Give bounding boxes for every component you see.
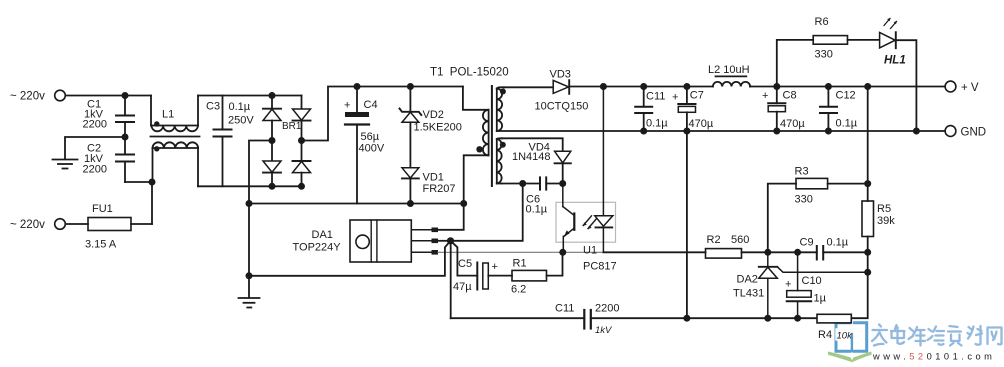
LED U1 xyxy=(602,87,604,216)
svg-text:C11: C11 xyxy=(555,303,574,315)
inductor L2 10uH xyxy=(708,64,750,87)
svg-text:R2: R2 xyxy=(707,234,721,246)
svg-text:~ 220v: ~ 220v xyxy=(10,219,45,231)
svg-text:R5: R5 xyxy=(877,203,891,215)
svg-text:R3: R3 xyxy=(795,165,809,177)
node AC line input terminal xyxy=(10,90,65,102)
diode VD3 10CTQ150 xyxy=(504,68,588,112)
svg-text:1µ: 1µ xyxy=(814,292,827,304)
wire DC+ from bridge to primary rail xyxy=(302,87,463,141)
resistor R3 330 xyxy=(768,165,868,252)
svg-text:330: 330 xyxy=(795,193,813,205)
transformer T1 bias winding xyxy=(496,139,498,184)
pin 1 drain xyxy=(411,229,431,231)
svg-text:FU1: FU1 xyxy=(92,203,113,215)
svg-text:47µ: 47µ xyxy=(453,281,472,293)
node TL431 cathode junction xyxy=(764,249,771,256)
capacitor C3 0.1u 250V xyxy=(206,96,254,187)
wire xyxy=(65,137,125,159)
svg-text:2200: 2200 xyxy=(595,303,619,315)
node junction C1/C2 xyxy=(122,134,129,141)
svg-text:C12: C12 xyxy=(836,90,856,102)
wire C6 node down to control xyxy=(451,184,523,241)
diode BR1 bottom-left xyxy=(271,141,273,162)
wire drain pin to primary xyxy=(438,204,464,230)
svg-text:560: 560 xyxy=(731,234,749,246)
svg-text:56µ: 56µ xyxy=(361,131,380,143)
resistor R2 560 xyxy=(706,234,768,258)
svg-text:0.1µ: 0.1µ xyxy=(526,204,548,216)
wire primary bottom xyxy=(464,155,489,203)
node primary ground junction xyxy=(246,272,253,279)
watermark chinese text xyxy=(872,325,1002,346)
node bridge top junction xyxy=(269,92,276,99)
node VD1 bottom junction xyxy=(407,200,414,207)
wire AC top rail to bridge xyxy=(198,95,302,97)
wire xyxy=(768,251,798,253)
svg-text:C11: C11 xyxy=(646,91,665,103)
capacitor C11 2200 1kV (Y-cap) xyxy=(555,303,619,336)
wire xyxy=(66,95,152,97)
svg-text:VD1: VD1 xyxy=(423,172,444,184)
node VD2 top xyxy=(407,83,414,90)
capacitor C6 0.1u xyxy=(526,177,563,215)
IC DA1 TOP224Y xyxy=(293,220,439,262)
svg-text:+: + xyxy=(492,261,498,273)
svg-text:T1 POL-15020: T1 POL-15020 xyxy=(430,67,509,79)
node bus junctions xyxy=(683,315,690,322)
svg-text:3.15 A: 3.15 A xyxy=(85,239,117,251)
svg-text:0.1µ: 0.1µ xyxy=(836,117,858,129)
wire primary top xyxy=(463,87,489,110)
capacitor C11 0.1u (output) xyxy=(635,87,668,132)
svg-text:R6: R6 xyxy=(815,16,829,28)
shunt regulator DA2 TL431 xyxy=(733,252,868,318)
svg-text:C3: C3 xyxy=(206,101,220,113)
pin 2 control xyxy=(411,240,431,242)
svg-text:L1: L1 xyxy=(162,109,174,121)
wire bias bottom to C6 xyxy=(502,183,540,185)
wire control to primary ground xyxy=(249,241,451,276)
ground primary xyxy=(239,276,260,308)
svg-text:250V: 250V xyxy=(228,115,254,127)
transformer T1 primary winding xyxy=(488,110,490,156)
svg-text:FR207: FR207 xyxy=(423,183,456,195)
ground xyxy=(53,160,78,169)
node primary winding bottom junction xyxy=(460,200,467,207)
resistor R5 39k xyxy=(862,201,895,237)
svg-text:0.1µ: 0.1µ xyxy=(827,236,849,248)
node GND rail junctions xyxy=(640,128,647,135)
wire Y-cap bus xyxy=(451,317,585,319)
svg-text:+: + xyxy=(672,91,678,103)
node source/emitter junction xyxy=(559,249,566,256)
wire xyxy=(151,182,153,224)
svg-text:+: + xyxy=(344,100,350,112)
svg-text:2200: 2200 xyxy=(83,118,107,130)
svg-text:1.5KE200: 1.5KE200 xyxy=(414,121,462,133)
svg-text:PC817: PC817 xyxy=(583,260,617,272)
wire control to C5 xyxy=(451,241,478,276)
svg-text:470µ: 470µ xyxy=(780,118,805,130)
svg-text:C4: C4 xyxy=(364,99,378,111)
wire LED cathode to R2 xyxy=(603,251,705,253)
optocoupler light arrows xyxy=(583,216,591,226)
resistor R6 330 xyxy=(777,16,880,87)
wire AC bottom rail to bridge xyxy=(198,185,302,187)
capacitor C7 470u xyxy=(672,87,714,132)
svg-text:39k: 39k xyxy=(877,215,895,227)
svg-text:+ V: + V xyxy=(961,82,979,94)
diode VD2 1.5KE200 xyxy=(400,87,462,168)
wire control down to Y-cap bus xyxy=(450,241,452,318)
diode BR1 top-right xyxy=(301,96,303,110)
svg-text:HL1: HL1 xyxy=(884,54,906,66)
diode BR1 top-left xyxy=(271,96,273,109)
svg-text:C7: C7 xyxy=(690,90,704,102)
diode BR1 bottom-right xyxy=(301,141,303,162)
capacitor C9 0.1u xyxy=(798,236,868,259)
svg-text:VD2: VD2 xyxy=(423,109,444,121)
svg-text:R4: R4 xyxy=(818,329,832,341)
resistor R1 6.2 xyxy=(511,252,563,295)
node C6 right junction xyxy=(559,180,566,187)
svg-text:DA1: DA1 xyxy=(312,229,333,241)
node bridge bottom-left junction xyxy=(269,183,276,190)
svg-text:www.520101.com: www.520101.com xyxy=(872,352,995,362)
svg-text:470µ: 470µ xyxy=(689,118,714,130)
fuse FU1 3.15A xyxy=(66,203,153,251)
svg-text:L2 10uH: L2 10uH xyxy=(708,64,750,76)
watermark logo icon xyxy=(828,323,872,363)
capacitor C4 56u 400V xyxy=(344,87,385,204)
wire DC- from bridge xyxy=(249,141,272,276)
svg-text:DA2: DA2 xyxy=(737,273,758,285)
svg-text:U1: U1 xyxy=(583,245,597,257)
node +V rail junctions xyxy=(600,83,607,90)
svg-text:10k: 10k xyxy=(837,331,854,342)
wire GND rail xyxy=(497,130,945,132)
node C4 top xyxy=(354,83,361,90)
capacitor C2 xyxy=(83,137,135,182)
svg-text:C8: C8 xyxy=(783,90,797,102)
node +V output terminal xyxy=(945,81,979,94)
node control junction xyxy=(447,237,454,244)
svg-text:10CTQ150: 10CTQ150 xyxy=(535,101,589,113)
resistor R4 10k xyxy=(817,314,851,341)
svg-text:1N4148: 1N4148 xyxy=(512,151,551,163)
svg-text:C5: C5 xyxy=(458,258,472,270)
svg-text:400V: 400V xyxy=(359,143,385,155)
svg-text:GND: GND xyxy=(961,127,987,139)
svg-text:330: 330 xyxy=(815,48,833,60)
pin 3 source xyxy=(411,251,431,253)
wire control pin xyxy=(438,240,451,242)
svg-text:1kV: 1kV xyxy=(595,325,613,336)
node junction C2/FU1/L1 xyxy=(149,179,156,186)
diode VD4 1N4148 xyxy=(512,142,571,184)
svg-text:0.1µ: 0.1µ xyxy=(229,101,251,113)
wire xyxy=(125,181,152,183)
node GND output terminal xyxy=(945,126,986,139)
svg-text:BR1: BR1 xyxy=(282,121,302,132)
optocoupler U1 PC817 xyxy=(556,87,617,273)
wire C7 node down to feedback bus xyxy=(686,131,688,318)
svg-text:TL431: TL431 xyxy=(733,287,764,299)
transformer T1 secondary winding xyxy=(496,89,498,131)
node bridge bottom-right junction xyxy=(298,183,305,190)
inductor L1 common-mode choke xyxy=(151,96,200,187)
node divider/C9 junction xyxy=(864,249,871,256)
node TL431 ref junction xyxy=(864,269,871,276)
wire feedback divider vertical xyxy=(867,87,869,202)
svg-text:6.2: 6.2 xyxy=(511,283,526,295)
bridge rectifier BR1 xyxy=(263,92,311,190)
LED HL1 xyxy=(880,18,917,131)
node bridge left mid (DC-) xyxy=(269,137,276,144)
node bridge right mid (DC+) xyxy=(298,137,305,144)
node C9/C10 junction xyxy=(794,249,801,256)
svg-text:C10: C10 xyxy=(802,275,822,287)
svg-text:TOP224Y: TOP224Y xyxy=(293,241,342,253)
capacitor C8 470u xyxy=(762,87,805,132)
node C6 left junction xyxy=(519,180,526,187)
svg-text:+: + xyxy=(785,278,791,290)
capacitor C10 1u xyxy=(785,252,827,318)
node R3 junction xyxy=(864,180,871,187)
svg-text:~ 220v: ~ 220v xyxy=(10,91,45,103)
wire +V rail xyxy=(569,86,713,88)
capacitor C1 xyxy=(83,96,135,138)
wire source pin line (thin) xyxy=(438,251,603,253)
transformer T1 POL-15020 xyxy=(430,67,509,204)
diode VD1 FR207 xyxy=(402,168,456,204)
svg-text:C9: C9 xyxy=(800,236,814,248)
svg-text:R1: R1 xyxy=(513,257,527,269)
svg-text:VD3: VD3 xyxy=(550,68,571,80)
wire DC- rail xyxy=(249,203,464,205)
node junction C1 top xyxy=(122,92,129,99)
transistor U1 phototransistor xyxy=(562,184,564,207)
transformer core xyxy=(491,86,493,186)
svg-text:0.1µ: 0.1µ xyxy=(646,117,668,129)
capacitor C5 47u xyxy=(453,258,512,293)
capacitor C12 0.1u xyxy=(820,87,858,132)
node DC- rail junction xyxy=(246,200,253,207)
wire bias winding top to VD4 xyxy=(502,138,563,151)
svg-text:+: + xyxy=(762,90,768,102)
svg-text:2200: 2200 xyxy=(83,164,107,176)
node AC neutral input terminal xyxy=(10,219,65,231)
